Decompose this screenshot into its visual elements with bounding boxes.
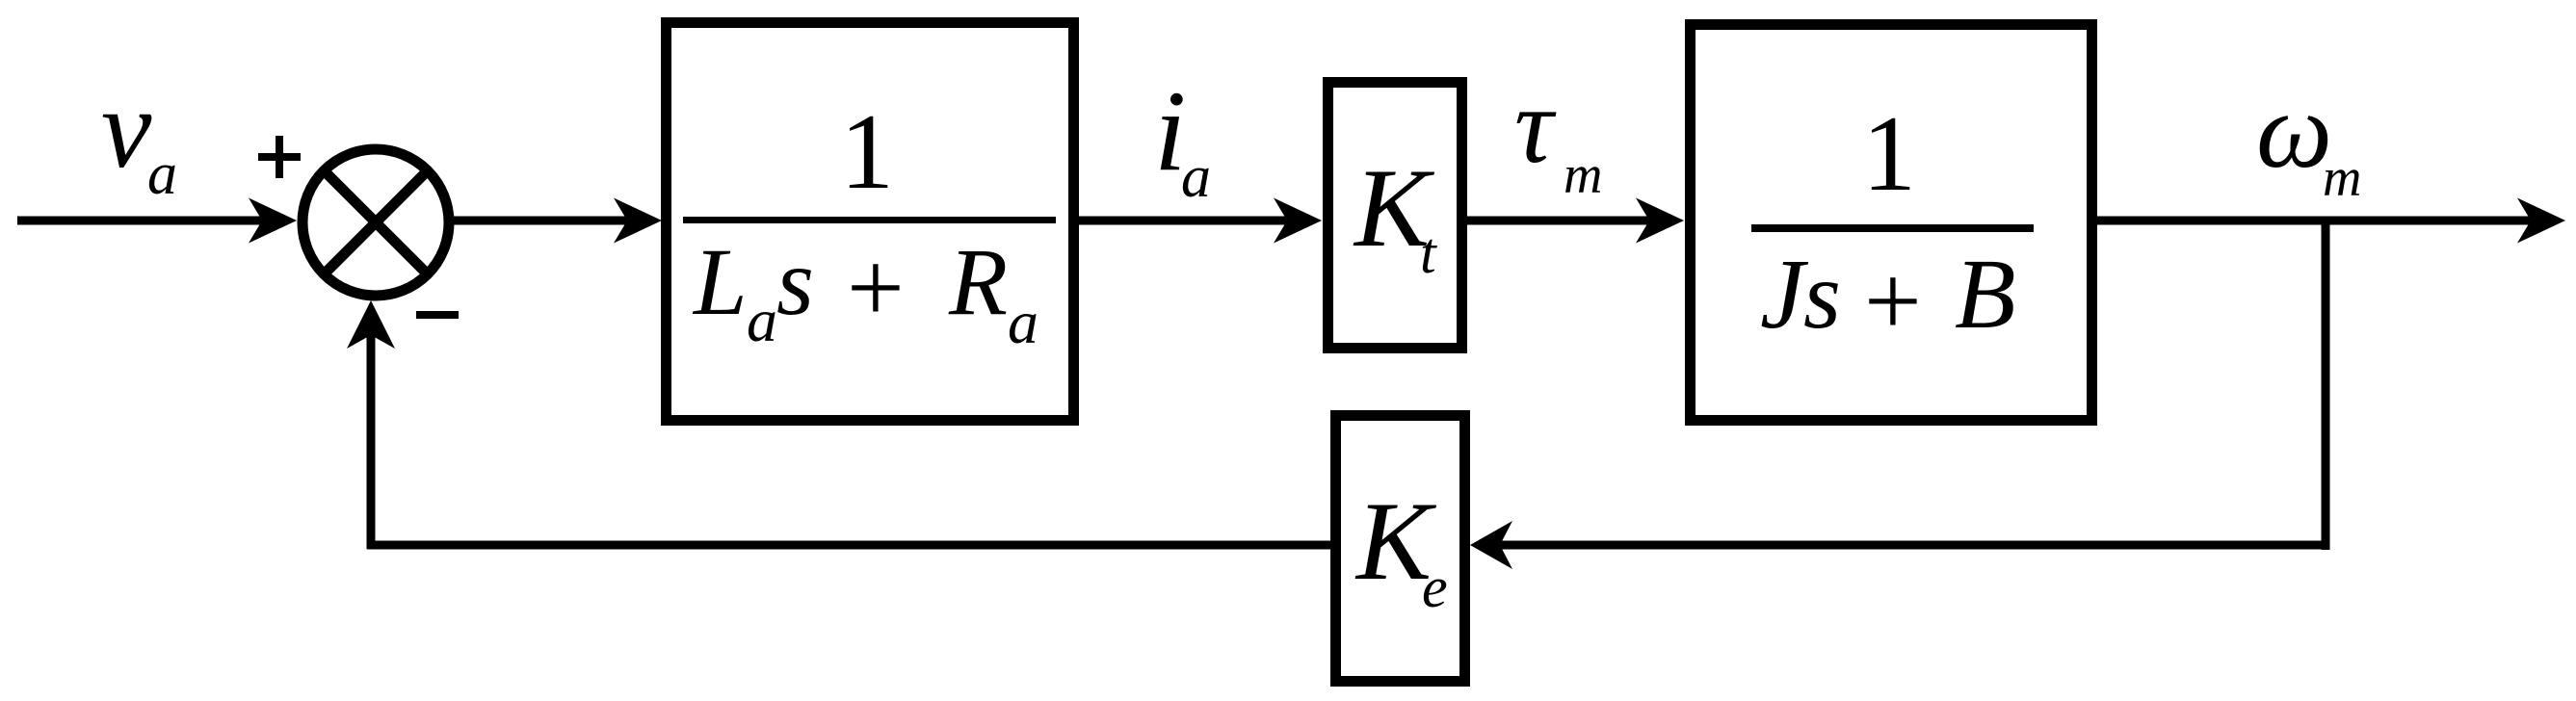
wire summing junction to block1 — [451, 217, 629, 225]
svg-text:1: 1 — [1862, 94, 1916, 214]
wire input va — [17, 217, 264, 225]
plus sign — [258, 136, 301, 178]
svg-text:a: a — [1008, 288, 1038, 356]
label i_a — [1154, 66, 1211, 210]
Kt text — [1353, 146, 1437, 285]
summing junction circle — [302, 149, 449, 296]
feedback wire right segment — [1498, 541, 2329, 550]
svg-text:m: m — [1564, 145, 1602, 205]
arrowhead into summing junction — [249, 198, 297, 244]
label omega_m — [2256, 71, 2361, 208]
svg-text:s: s — [1803, 242, 1841, 349]
block1 denominator La s + Ra — [692, 228, 1038, 356]
arrowhead into Ke — [1470, 521, 1512, 569]
wire block3 to output — [2095, 217, 2533, 225]
arrowhead into block1 — [614, 198, 662, 244]
svg-text:L: L — [692, 228, 748, 335]
svg-text:e: e — [1422, 556, 1448, 619]
svg-text:s: s — [776, 228, 814, 335]
minus sign — [416, 311, 459, 319]
label tau_m — [1514, 66, 1602, 205]
Ke text — [1354, 480, 1448, 619]
svg-text:v: v — [101, 65, 152, 192]
feedback wire left segment — [367, 541, 1330, 550]
arrowhead into block3 — [1636, 198, 1684, 244]
arrowhead up into summing junction — [347, 300, 395, 349]
block1 fraction bar — [683, 217, 1056, 223]
svg-text:t: t — [1420, 221, 1437, 285]
block3 denominator Js + B — [1760, 239, 2016, 357]
svg-text:a: a — [147, 142, 177, 207]
svg-text:+: + — [1864, 245, 1922, 357]
svg-text:a: a — [747, 286, 777, 354]
svg-text:1: 1 — [840, 92, 894, 212]
block1 1/(La s+Ra) — [667, 23, 1074, 421]
wire Kt to block3 — [1465, 217, 1651, 225]
wire block1 to Kt — [1077, 217, 1289, 225]
svg-text:B: B — [1955, 239, 2016, 350]
svg-text:J: J — [1760, 239, 1809, 350]
block3 fraction bar — [1751, 224, 2034, 232]
output arrowhead — [2517, 198, 2565, 244]
svg-text:R: R — [948, 228, 1008, 335]
node: branch point on omega_m wire, vertical drop wire — [2322, 221, 2330, 550]
svg-text:a: a — [1181, 144, 1211, 210]
svg-text:+: + — [847, 231, 905, 344]
X cross in summing junction — [324, 170, 428, 274]
block Kt — [1328, 83, 1462, 349]
feedback vertical up to summing junction — [367, 333, 376, 549]
svg-text:m: m — [2323, 148, 2361, 208]
svg-text:ω: ω — [2256, 71, 2332, 191]
block Ke — [1336, 416, 1465, 682]
label v_a — [101, 65, 177, 207]
arrowhead into Kt — [1274, 198, 1322, 244]
block3 1/(Js+B) — [1691, 25, 2092, 421]
svg-text:τ: τ — [1514, 66, 1557, 186]
